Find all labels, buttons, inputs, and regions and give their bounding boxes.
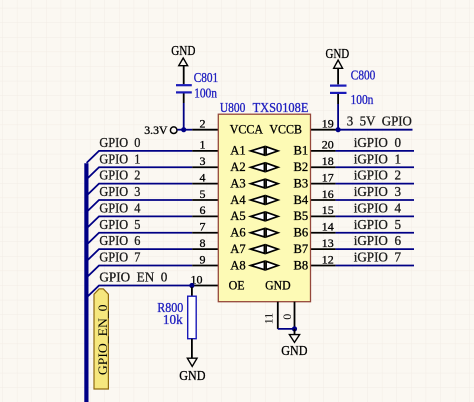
svg-text:2: 2	[200, 117, 206, 131]
svg-text:A7: A7	[230, 242, 245, 256]
svg-text:iGPIO 1: iGPIO 1	[354, 151, 401, 166]
svg-text:GPIO 4: GPIO 4	[99, 200, 140, 215]
svg-text:GND: GND	[265, 278, 291, 292]
svg-text:GPIO EN 0: GPIO EN 0	[99, 270, 167, 285]
svg-text:3: 3	[200, 154, 206, 168]
svg-text:OE: OE	[229, 278, 245, 292]
svg-text:VCCA: VCCA	[230, 122, 263, 136]
svg-text:GPIO 1: GPIO 1	[99, 151, 140, 166]
svg-text:iGPIO 7: iGPIO 7	[354, 249, 402, 264]
svg-text:GPIO 2: GPIO 2	[99, 168, 140, 183]
svg-text:U800: U800	[220, 100, 246, 115]
svg-text:A1: A1	[230, 144, 245, 158]
svg-text:6: 6	[200, 203, 206, 217]
svg-text:VCCB: VCCB	[269, 122, 302, 136]
svg-text:GPIO 3: GPIO 3	[99, 184, 140, 199]
svg-text:15: 15	[322, 203, 334, 217]
svg-text:8: 8	[200, 236, 206, 250]
svg-text:19: 19	[322, 117, 334, 131]
svg-text:GPIO 7: GPIO 7	[99, 249, 140, 264]
svg-text:B5: B5	[294, 209, 309, 223]
svg-text:C800: C800	[351, 67, 376, 82]
svg-text:3.3V: 3.3V	[144, 123, 168, 137]
svg-text:C801: C801	[194, 70, 219, 85]
svg-text:A2: A2	[230, 160, 245, 174]
svg-text:4: 4	[200, 170, 206, 184]
svg-text:A3: A3	[230, 176, 245, 190]
svg-text:14: 14	[322, 220, 334, 234]
svg-text:20: 20	[322, 138, 334, 152]
svg-text:3 5V GPIO: 3 5V GPIO	[347, 114, 412, 129]
svg-text:GND: GND	[179, 368, 205, 383]
svg-text:5: 5	[200, 187, 206, 201]
svg-text:16: 16	[322, 187, 334, 201]
svg-text:11: 11	[262, 313, 276, 325]
svg-text:12: 12	[322, 252, 334, 266]
svg-text:B2: B2	[294, 160, 309, 174]
svg-text:A6: A6	[230, 226, 245, 240]
svg-text:100n: 100n	[351, 92, 374, 107]
svg-text:1: 1	[200, 138, 206, 152]
svg-text:10k: 10k	[163, 312, 183, 327]
svg-text:GND: GND	[325, 46, 349, 61]
svg-text:17: 17	[322, 170, 334, 184]
svg-text:iGPIO 0: iGPIO 0	[354, 135, 402, 150]
svg-text:iGPIO 2: iGPIO 2	[354, 168, 401, 183]
svg-text:GND: GND	[281, 343, 307, 358]
svg-text:GPIO 6: GPIO 6	[99, 233, 140, 248]
svg-text:iGPIO 5: iGPIO 5	[354, 217, 402, 232]
svg-text:B7: B7	[294, 242, 309, 256]
svg-text:A8: A8	[230, 258, 245, 272]
svg-text:A4: A4	[230, 193, 246, 207]
svg-text:B3: B3	[294, 176, 309, 190]
svg-text:GPIO 5: GPIO 5	[99, 217, 140, 232]
svg-text:9: 9	[200, 252, 206, 266]
svg-text:B1: B1	[294, 144, 309, 158]
svg-text:A5: A5	[230, 209, 245, 223]
svg-text:B6: B6	[294, 226, 309, 240]
svg-text:GPIO_EN_0: GPIO_EN_0	[96, 304, 110, 375]
svg-text:B4: B4	[294, 193, 309, 207]
svg-text:B8: B8	[294, 258, 309, 272]
svg-text:iGPIO 4: iGPIO 4	[354, 200, 402, 215]
svg-text:iGPIO 6: iGPIO 6	[354, 233, 402, 248]
svg-text:13: 13	[322, 236, 334, 250]
svg-text:TXS0108E: TXS0108E	[253, 100, 309, 115]
svg-text:iGPIO 3: iGPIO 3	[354, 184, 402, 199]
svg-text:18: 18	[322, 154, 334, 168]
svg-text:GPIO 0: GPIO 0	[99, 135, 140, 150]
svg-text:100n: 100n	[194, 86, 217, 101]
svg-text:GND: GND	[171, 43, 195, 58]
svg-text:7: 7	[200, 220, 206, 234]
svg-text:0: 0	[280, 314, 294, 320]
